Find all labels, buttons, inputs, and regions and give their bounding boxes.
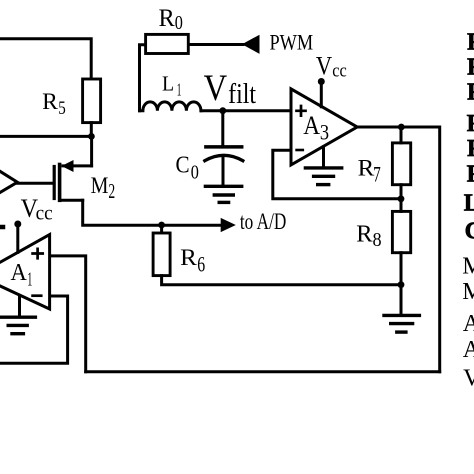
- node junction below R5: [88, 133, 95, 140]
- wire R8 top stem: [400, 199, 403, 212]
- wire M2 source down and right to A/D: [83, 200, 222, 225]
- svg-text:A: A: [11, 260, 28, 286]
- wire feedback from R7/R8 node to A3 inverting input: [273, 150, 401, 199]
- svg-text:7: 7: [373, 161, 381, 186]
- svg-text:1: 1: [177, 79, 182, 99]
- svg-text:L: L: [464, 191, 474, 217]
- svg-text:A: A: [303, 111, 320, 140]
- label A1: [11, 260, 33, 291]
- wire left horizontal at node: [0, 135, 91, 138]
- wire A3 output right and down right side: [357, 127, 440, 372]
- wire R8 bottom stem: [400, 253, 403, 285]
- svg-text:to A/D: to A/D: [240, 209, 286, 234]
- resistor R8: [392, 211, 410, 252]
- svg-text:M: M: [462, 253, 474, 279]
- svg-text:M: M: [462, 279, 474, 305]
- label Vfilt: [204, 67, 257, 110]
- wire L1 to node: [201, 109, 223, 112]
- wire Vcc to A3: [320, 82, 323, 107]
- svg-text:1: 1: [27, 269, 32, 291]
- ground below A3: [322, 147, 325, 167]
- label A3: [303, 111, 329, 144]
- inductor L1: [140, 102, 201, 111]
- node junction A3 output: [398, 124, 405, 131]
- svg-text:R: R: [467, 80, 474, 106]
- wire A1 inverting input loop to left edge: [0, 296, 68, 363]
- svg-text:6: 6: [197, 251, 205, 276]
- Vcc supply A1: [21, 194, 53, 225]
- ground below A1: [18, 297, 21, 317]
- svg-text:cc: cc: [36, 203, 53, 225]
- node Vfilt: [219, 107, 226, 114]
- svg-text:V: V: [316, 51, 332, 80]
- top plate: [206, 145, 242, 149]
- label R5: [42, 89, 66, 119]
- wire Vcc to A1: [16, 224, 19, 252]
- label L1: [162, 72, 181, 100]
- transistor M2: [54, 160, 91, 200]
- label R6: [180, 245, 205, 276]
- Vcc dot A1: [14, 221, 21, 228]
- wire node down to M2 drain: [90, 136, 93, 166]
- svg-text:R: R: [42, 89, 58, 114]
- op-amp A3: [291, 89, 357, 165]
- wire stub at left edge: [0, 225, 3, 230]
- Vcc supply A3: [316, 51, 347, 81]
- node junction R6 top: [158, 222, 165, 229]
- svg-text:5: 5: [58, 98, 66, 119]
- label PWM: [270, 30, 314, 55]
- svg-text:PWM: PWM: [270, 30, 314, 55]
- svg-text:M: M: [91, 173, 109, 199]
- wire junction down to ground: [400, 285, 403, 314]
- curved plate: [205, 155, 243, 160]
- resistor R5: [83, 79, 101, 123]
- svg-text:3: 3: [320, 120, 329, 145]
- ground below C0: [205, 186, 241, 202]
- svg-text:0: 0: [191, 161, 199, 183]
- top stem: [221, 111, 224, 146]
- svg-text:R: R: [356, 220, 373, 247]
- wire A2 output to M2 gate: [17, 182, 52, 185]
- wire top-left horizontal to R5: [0, 39, 91, 79]
- svg-text:0: 0: [175, 12, 183, 34]
- label A1 plus input: [33, 249, 43, 258]
- wire Vfilt to A3 non-inverting input: [223, 109, 291, 112]
- wire R6 top stem: [160, 225, 163, 233]
- resistor R6: [153, 233, 170, 276]
- gate bar: [53, 167, 56, 199]
- op-amp A1: [0, 235, 50, 309]
- svg-text:2: 2: [108, 179, 115, 203]
- node junction below R8: [398, 281, 405, 288]
- label R7: [358, 155, 381, 186]
- bottom stem: [222, 158, 225, 185]
- svg-text:R: R: [159, 3, 175, 32]
- wire R6 bottom to R8 junction: [162, 276, 401, 285]
- resistor R0 leads: [140, 45, 244, 111]
- capacitor C0: [205, 111, 243, 185]
- svg-text:A: A: [463, 311, 474, 337]
- Vcc dot A3: [318, 78, 325, 85]
- resistor R0: [146, 34, 189, 53]
- wire R7 stems: [400, 127, 403, 199]
- label A3 plus input: [297, 106, 306, 116]
- svg-text:R: R: [467, 162, 474, 188]
- svg-text:L: L: [162, 72, 174, 96]
- wire bottom horizontal: [86, 370, 440, 373]
- arrow to A/D: [221, 218, 236, 232]
- node junction R7/R8: [398, 195, 405, 202]
- svg-text:filt: filt: [228, 78, 256, 110]
- label C0: [176, 152, 199, 184]
- label R0: [159, 3, 183, 34]
- label A3 minus input: [297, 149, 303, 152]
- svg-text:8: 8: [373, 229, 382, 251]
- ground below R8: [384, 315, 419, 332]
- legend letter fragments at right edge: [462, 30, 474, 392]
- drain arrowhead: [62, 160, 74, 172]
- svg-text:R: R: [180, 245, 197, 271]
- label R8: [356, 220, 381, 251]
- svg-text:cc: cc: [332, 61, 347, 82]
- svg-text:C: C: [465, 219, 474, 245]
- resistor R7: [392, 143, 410, 185]
- svg-text:V: V: [204, 67, 228, 108]
- svg-text:R: R: [467, 136, 474, 162]
- svg-text:C: C: [176, 152, 190, 179]
- op-amp A2 (clipped at left edge) output to gate: [0, 168, 17, 195]
- svg-text:V: V: [463, 366, 474, 392]
- svg-text:R: R: [467, 111, 474, 137]
- wire up to A1 non-inverting input: [50, 256, 86, 372]
- source lead: [60, 199, 83, 202]
- svg-text:R: R: [467, 30, 474, 56]
- drain lead: [63, 164, 92, 167]
- arrow PWM input: [242, 35, 260, 54]
- svg-text:A: A: [463, 337, 474, 363]
- svg-text:R: R: [467, 54, 474, 80]
- label A1 minus input: [33, 294, 42, 297]
- label M2: [91, 173, 116, 203]
- channel bar: [58, 165, 62, 201]
- wire R5 bottom stem: [90, 123, 93, 137]
- label to A/D: [240, 209, 286, 234]
